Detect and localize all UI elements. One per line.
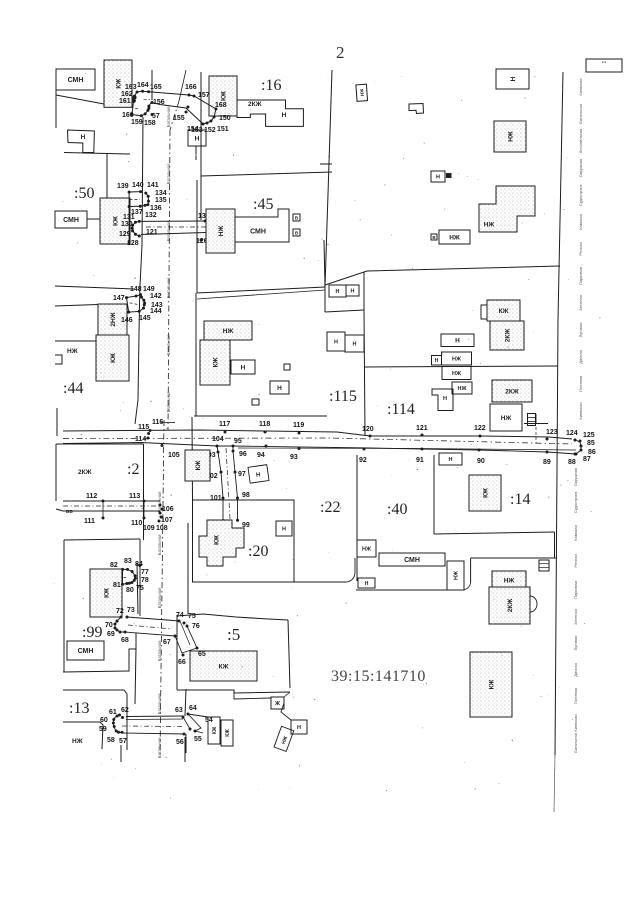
svg-text:Речная: Речная <box>578 242 583 255</box>
svg-text:150: 150 <box>219 115 231 122</box>
svg-text:НЖ: НЖ <box>484 221 495 228</box>
svg-text:163: 163 <box>125 84 137 91</box>
svg-text:Батальная: Батальная <box>157 738 162 759</box>
svg-text:''': ''' <box>602 62 607 68</box>
svg-text::5: :5 <box>227 625 240 644</box>
svg-text:Батальная: Батальная <box>166 278 171 299</box>
svg-text:145: 145 <box>139 315 151 322</box>
svg-text:КЖ: КЖ <box>195 460 202 470</box>
svg-text:2НЖ: 2НЖ <box>110 312 117 326</box>
svg-text:60: 60 <box>100 717 108 724</box>
svg-text:Батальная: Батальная <box>166 107 171 128</box>
svg-text:121: 121 <box>146 229 158 236</box>
svg-text:Ж: Ж <box>274 701 280 707</box>
svg-text:134: 134 <box>155 190 167 197</box>
svg-text:Н: Н <box>81 134 86 141</box>
svg-text:157: 157 <box>198 92 210 99</box>
svg-text::2: :2 <box>127 461 139 478</box>
svg-text:106: 106 <box>162 506 174 513</box>
svg-text:87: 87 <box>583 456 591 463</box>
svg-text:КЖ: КЖ <box>499 308 509 315</box>
svg-text:111: 111 <box>84 518 95 525</box>
svg-text:Н: Н <box>365 581 369 587</box>
svg-text:КЖ: КЖ <box>213 535 220 545</box>
svg-text:НЖ: НЖ <box>504 577 515 584</box>
svg-text:83: 83 <box>124 558 132 565</box>
svg-text:Судостроит.: Судостроит. <box>578 184 583 206</box>
svg-text:2: 2 <box>336 43 345 62</box>
svg-text:Зеленая: Зеленая <box>573 609 578 625</box>
svg-text::14: :14 <box>510 491 530 508</box>
svg-text:Н: Н <box>449 457 453 463</box>
svg-text:69: 69 <box>107 631 115 638</box>
svg-text:135: 135 <box>155 197 167 204</box>
svg-text:Батальная: Батальная <box>166 221 171 242</box>
svg-text:Н: Н <box>277 385 282 392</box>
svg-text:84: 84 <box>135 561 143 568</box>
svg-text:39:15:141710: 39:15:141710 <box>331 668 426 685</box>
svg-text:101: 101 <box>210 495 222 502</box>
svg-text:62: 62 <box>121 707 129 714</box>
svg-text:95: 95 <box>234 438 242 445</box>
svg-text:162: 162 <box>121 91 133 98</box>
svg-text:КЖ: КЖ <box>110 353 117 363</box>
svg-text:КЖ: КЖ <box>212 357 219 367</box>
svg-text:104: 104 <box>212 436 224 443</box>
svg-text:КЖ: КЖ <box>115 79 122 89</box>
svg-text:85: 85 <box>587 440 595 447</box>
svg-text:Окружная: Окружная <box>578 159 583 177</box>
svg-text:105: 105 <box>168 452 180 459</box>
svg-text:155: 155 <box>173 115 185 122</box>
svg-text:124: 124 <box>566 430 578 437</box>
svg-text::44: :44 <box>63 380 83 397</box>
svg-text:КЖ: КЖ <box>225 729 231 737</box>
svg-text:НЖ: НЖ <box>362 546 371 552</box>
svg-text:131: 131 <box>123 214 135 221</box>
svg-text:112: 112 <box>86 493 97 500</box>
svg-text:Речная: Речная <box>573 554 578 567</box>
svg-text:Н: Н <box>195 135 200 142</box>
svg-text:Батальная: Батальная <box>157 694 162 715</box>
svg-text:Н: Н <box>334 339 338 345</box>
svg-text:77: 77 <box>141 569 149 576</box>
svg-text:вв: вв <box>66 509 73 515</box>
svg-text:91: 91 <box>416 457 424 464</box>
svg-text:108: 108 <box>156 525 168 532</box>
svg-text:61: 61 <box>109 709 117 716</box>
svg-text:75: 75 <box>136 585 144 592</box>
svg-text:Н: Н <box>241 364 246 371</box>
svg-text:НЖ: НЖ <box>67 348 78 355</box>
svg-text:СМН: СМН <box>78 648 94 655</box>
svg-text:109: 109 <box>143 525 155 532</box>
svg-text:78: 78 <box>141 577 149 584</box>
svg-text:Батальная: Батальная <box>166 335 171 356</box>
svg-text:Н: Н <box>282 526 286 532</box>
svg-text:93: 93 <box>290 454 298 461</box>
svg-text:СМН: СМН <box>404 557 420 564</box>
svg-text:НЖ: НЖ <box>452 371 461 377</box>
svg-text:Н: Н <box>510 76 517 81</box>
svg-text:2КЖ: 2КЖ <box>505 388 519 395</box>
svg-text:Дачная: Дачная <box>578 350 583 364</box>
svg-text:86: 86 <box>588 449 596 456</box>
svg-text:НЖ: НЖ <box>359 88 365 97</box>
svg-text:Н: Н <box>297 725 301 731</box>
svg-text:146: 146 <box>121 317 133 324</box>
svg-text:Батальная: Батальная <box>166 392 171 413</box>
svg-text:Судостроит.: Судостроит. <box>573 491 578 513</box>
svg-text::40: :40 <box>387 501 407 518</box>
svg-text:107: 107 <box>161 517 173 524</box>
svg-text:70: 70 <box>105 622 113 629</box>
svg-text:57: 57 <box>152 113 160 120</box>
svg-text:Н: Н <box>435 358 439 364</box>
svg-text:НЖ: НЖ <box>452 356 461 362</box>
svg-text:НЖ: НЖ <box>449 234 460 241</box>
svg-text:122: 122 <box>474 425 486 432</box>
svg-text:88: 88 <box>568 459 576 466</box>
svg-text:94: 94 <box>257 452 265 459</box>
svg-text:НЖ: НЖ <box>223 328 234 335</box>
svg-text:90: 90 <box>477 458 485 465</box>
svg-text:2КЖ: 2КЖ <box>504 329 511 343</box>
svg-text::22: :22 <box>320 499 340 516</box>
svg-text:Батальная: Батальная <box>578 104 583 124</box>
svg-text:120: 120 <box>362 426 374 433</box>
svg-text:128: 128 <box>127 240 139 247</box>
svg-text:Полевая: Полевая <box>573 688 578 704</box>
svg-text:73: 73 <box>127 607 135 614</box>
svg-text:Н: Н <box>353 341 357 347</box>
svg-text:Камская: Камская <box>578 214 583 230</box>
svg-text:98: 98 <box>242 492 250 499</box>
svg-text:63: 63 <box>175 707 183 714</box>
svg-text:2КЖ: 2КЖ <box>248 101 262 108</box>
svg-text:96: 96 <box>239 451 247 458</box>
svg-text:Зеленая: Зеленая <box>578 295 583 311</box>
svg-text::114: :114 <box>387 401 415 418</box>
svg-text:НЖ: НЖ <box>458 386 467 392</box>
svg-text:Парковая: Парковая <box>573 581 578 599</box>
svg-text:Киевская: Киевская <box>578 402 583 419</box>
svg-text:153: 153 <box>191 127 203 134</box>
svg-text:130: 130 <box>121 221 133 228</box>
svg-text:136: 136 <box>150 205 162 212</box>
svg-text:Н: Н <box>351 288 355 294</box>
svg-text:Н: Н <box>436 174 440 180</box>
svg-text:Батальная: Батальная <box>166 164 171 185</box>
svg-text:СМН: СМН <box>68 77 84 84</box>
svg-text:КЖ: КЖ <box>103 588 110 598</box>
svg-text:56: 56 <box>176 739 184 746</box>
svg-text:Батальная: Батальная <box>157 535 162 556</box>
svg-text:149: 149 <box>143 286 155 293</box>
svg-text:97: 97 <box>238 471 246 478</box>
svg-text:141: 141 <box>147 182 159 189</box>
svg-text:132: 132 <box>145 212 157 219</box>
svg-text:Н: Н <box>455 338 460 345</box>
svg-text:152: 152 <box>204 127 216 134</box>
svg-text:Луговая: Луговая <box>578 323 583 338</box>
svg-text:Лесопильная: Лесопильная <box>578 129 583 154</box>
svg-text:160: 160 <box>122 112 134 119</box>
svg-text:НЖ: НЖ <box>72 738 83 745</box>
svg-text:НЖ: НЖ <box>507 131 514 142</box>
svg-text:Полевая: Полевая <box>578 376 583 392</box>
svg-text:Батальная: Батальная <box>157 641 162 662</box>
svg-text:144: 144 <box>150 308 162 315</box>
svg-text:Камская: Камская <box>573 525 578 541</box>
svg-text:148: 148 <box>130 286 142 293</box>
svg-text:67: 67 <box>163 639 171 646</box>
svg-text:Дачная: Дачная <box>573 663 578 677</box>
svg-text:168: 168 <box>215 102 227 109</box>
svg-text::50: :50 <box>74 185 94 202</box>
svg-text:75: 75 <box>188 613 196 620</box>
svg-text:166: 166 <box>185 84 197 91</box>
svg-text:110: 110 <box>131 520 142 527</box>
svg-text:158: 158 <box>144 120 156 127</box>
svg-text::45: :45 <box>253 196 273 213</box>
svg-text:82: 82 <box>110 562 118 569</box>
svg-text:Киевская: Киевская <box>573 714 578 731</box>
svg-text:114: 114 <box>135 436 146 443</box>
svg-text::20: :20 <box>248 543 268 560</box>
svg-text:140: 140 <box>132 182 144 189</box>
svg-text:129: 129 <box>119 231 131 238</box>
svg-text:92: 92 <box>359 457 367 464</box>
svg-text:Луговая: Луговая <box>573 636 578 651</box>
svg-text:68: 68 <box>121 637 129 644</box>
svg-text:151: 151 <box>217 126 229 133</box>
svg-text:59: 59 <box>99 726 107 733</box>
svg-text:81: 81 <box>113 582 121 589</box>
svg-text:161: 161 <box>119 98 131 105</box>
svg-text:123: 123 <box>546 429 558 436</box>
svg-text:2КЖ: 2КЖ <box>507 599 514 613</box>
svg-text:Н: Н <box>256 472 261 479</box>
svg-text:КЖ: КЖ <box>220 91 227 101</box>
svg-text:164: 164 <box>137 82 149 89</box>
svg-text:74: 74 <box>176 612 184 619</box>
svg-text:КЖ: КЖ <box>112 216 119 226</box>
svg-text:66: 66 <box>178 659 186 666</box>
svg-text:Н: Н <box>336 289 340 295</box>
svg-text:72: 72 <box>116 608 124 615</box>
svg-text:КЖ: КЖ <box>482 488 489 498</box>
svg-text:Батальная: Батальная <box>157 588 162 609</box>
svg-text:115: 115 <box>138 424 149 431</box>
svg-text:КЖ: КЖ <box>212 726 218 734</box>
svg-text:Н: Н <box>282 112 287 119</box>
svg-text:Н: Н <box>443 396 447 402</box>
svg-text::115: :115 <box>329 388 357 405</box>
svg-text:147: 147 <box>113 295 125 302</box>
svg-text:156: 156 <box>153 99 165 106</box>
svg-text:139: 139 <box>117 183 129 190</box>
svg-text:121: 121 <box>416 425 428 432</box>
svg-text:65: 65 <box>198 651 206 658</box>
svg-text:Батальная: Батальная <box>573 733 578 753</box>
svg-text:118: 118 <box>259 421 270 428</box>
svg-text:55: 55 <box>194 736 202 743</box>
svg-text:89: 89 <box>543 459 551 466</box>
svg-text:НЖ: НЖ <box>501 415 512 422</box>
svg-text:142: 142 <box>150 293 162 300</box>
svg-text:КЖ: КЖ <box>219 663 229 670</box>
svg-text:64: 64 <box>189 705 197 712</box>
svg-text:Парковая: Парковая <box>578 267 583 285</box>
svg-text:58: 58 <box>107 737 115 744</box>
svg-text:КЖ: КЖ <box>488 679 495 689</box>
svg-text:СМН: СМН <box>63 217 79 224</box>
svg-text:159: 159 <box>131 119 143 126</box>
svg-text:СМН: СМН <box>250 228 266 235</box>
svg-text:54: 54 <box>205 717 213 724</box>
svg-text:119: 119 <box>293 422 304 429</box>
svg-text:НЖ: НЖ <box>218 226 225 237</box>
svg-text:165: 165 <box>150 84 162 91</box>
svg-text:57: 57 <box>119 738 127 745</box>
svg-text:Киевская: Киевская <box>578 78 583 95</box>
svg-text:80: 80 <box>126 587 134 594</box>
svg-text::16: :16 <box>261 77 281 94</box>
svg-text:117: 117 <box>219 421 230 428</box>
svg-text:76: 76 <box>192 623 200 630</box>
svg-text:2КЖ: 2КЖ <box>78 469 92 476</box>
svg-text::13: :13 <box>69 700 89 717</box>
svg-text:НЖ: НЖ <box>453 571 459 580</box>
svg-text:Окружная: Окружная <box>573 468 578 486</box>
svg-text:113: 113 <box>129 493 140 500</box>
svg-text:125: 125 <box>583 432 595 439</box>
svg-text::99: :99 <box>82 624 102 641</box>
